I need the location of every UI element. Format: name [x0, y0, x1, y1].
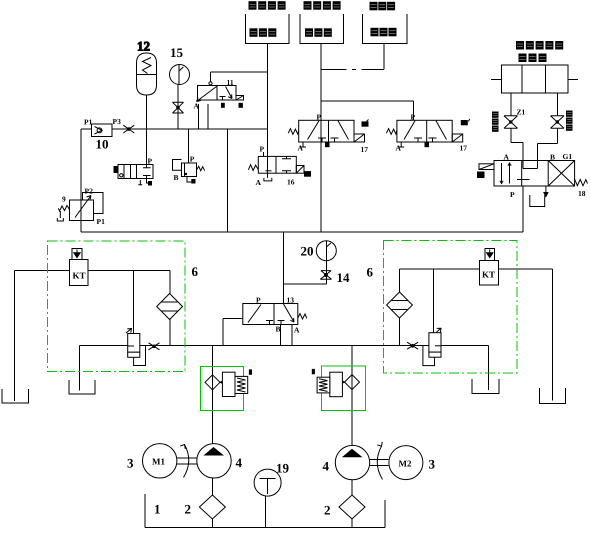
- relief valve 9: [57, 187, 105, 227]
- wire right filter column: [399, 269, 401, 346]
- solenoid directional valve 18: [478, 152, 588, 207]
- text label: brake (box 2): [305, 28, 332, 37]
- svg-text:B: B: [550, 153, 555, 162]
- text label: rope adjusting clutch title: [516, 41, 563, 50]
- svg-text:19: 19: [276, 461, 290, 476]
- wire right pump column: [351, 346, 353, 528]
- svg-text:2: 2: [185, 502, 192, 517]
- hydraulic lock KT left: [70, 249, 89, 286]
- counterbalance valve left: [126, 329, 146, 366]
- svg-text:P: P: [148, 157, 153, 166]
- counterbalance valve right: [423, 328, 441, 365]
- wire valve13 left port: [223, 319, 243, 346]
- wire relief_L feed: [133, 271, 135, 334]
- wire left drain to KT and tank1: [15, 271, 70, 402]
- svg-text:A: A: [194, 102, 200, 111]
- svg-text:KT: KT: [482, 270, 495, 280]
- text label: floating drum (brake box 1 title): [249, 1, 286, 10]
- filter big left: [157, 294, 183, 320]
- green filter unit box 5 right: [322, 366, 366, 411]
- suction filter with bypass right: [312, 369, 360, 397]
- wire through valve17L down to rail x=321: [320, 101, 322, 232]
- wire valve18 P drop: [522, 186, 524, 232]
- svg-text:11: 11: [227, 78, 234, 87]
- wire relief_R feed: [433, 269, 435, 333]
- check valve 10: [84, 117, 121, 152]
- svg-text:15: 15: [170, 45, 184, 60]
- text label: fixed drum (brake box 2 title): [304, 1, 341, 10]
- wire cylinder rod lines: [491, 79, 578, 81]
- tank T1 left drain: [2, 389, 29, 403]
- wire valve11 port drops: [199, 104, 209, 129]
- suction filter with bypass left: [205, 369, 252, 396]
- solenoid valve 17 right: [386, 113, 469, 153]
- svg-text:P: P: [190, 155, 195, 164]
- svg-text:B: B: [174, 173, 179, 182]
- green dash-dot enclosure 6 right: [384, 241, 518, 373]
- electric motor M1: [127, 444, 177, 478]
- svg-text:10: 10: [96, 137, 109, 152]
- svg-text:A: A: [504, 153, 510, 162]
- wire accumulator stem: [146, 95, 148, 129]
- plugged X left return: [149, 343, 160, 350]
- svg-text:M2: M2: [399, 459, 412, 469]
- svg-text:P: P: [411, 113, 416, 122]
- shaft coupling right: [370, 442, 389, 480]
- text label: close rope (right needle): [566, 111, 573, 131]
- svg-text:M1: M1: [152, 457, 165, 467]
- wire right tank3 drop: [488, 346, 490, 391]
- wire left tank2 drop: [79, 346, 81, 391]
- needle valve left (release rope): [504, 108, 526, 129]
- wire supply rail y=232: [81, 231, 523, 233]
- svg-text:17: 17: [361, 145, 369, 154]
- svg-text:12: 12: [137, 39, 150, 54]
- svg-text:18: 18: [578, 189, 586, 198]
- wire left frame vertical x=81: [80, 129, 82, 232]
- wire valve7 P feed: [146, 129, 148, 165]
- pilot valve 11: [194, 78, 244, 111]
- text label: electric motor (brake box 3 title): [370, 2, 396, 11]
- solenoid valve 17 left: [288, 113, 368, 155]
- svg-text:P: P: [256, 296, 261, 305]
- wire supply to valves 17: [321, 101, 414, 120]
- hydraulic pump 4 left: [197, 444, 243, 478]
- svg-text:B: B: [276, 325, 281, 334]
- brake box 3 (motor brake): [363, 14, 408, 44]
- text label: brake (box 3): [371, 28, 397, 37]
- wire KT_R line to right frame: [400, 268, 553, 270]
- pressure gauge 15: [170, 45, 190, 85]
- text label: open rope (left needle): [492, 112, 499, 132]
- text label: brake (box 1): [250, 28, 277, 37]
- svg-text:P: P: [260, 145, 265, 154]
- svg-text:4: 4: [236, 455, 243, 470]
- svg-text:G1: G1: [563, 152, 573, 161]
- needle valve right (close rope): [551, 116, 565, 128]
- text label: hydraulic cylinder title: [519, 54, 547, 63]
- plugged X on main line: [123, 125, 134, 133]
- wire cylinder left port to valve18 A: [511, 93, 523, 169]
- svg-text:A: A: [256, 178, 262, 187]
- wire cylinder right port to valve18 B: [538, 93, 558, 169]
- svg-text:A: A: [298, 144, 304, 153]
- svg-text:P3: P3: [113, 117, 122, 126]
- shaft coupling left: [177, 445, 197, 478]
- svg-text:6: 6: [367, 265, 374, 280]
- svg-text:A: A: [396, 144, 402, 153]
- wire dash-dot jumper to brake3 stem: [321, 44, 384, 70]
- svg-text:6: 6: [192, 264, 199, 279]
- wire gauge20 branch: [284, 261, 327, 284]
- wire long return line y=345.5: [80, 345, 489, 347]
- tank T3 right of return line: [472, 379, 499, 394]
- hydraulic pump 4 right: [323, 445, 370, 479]
- wire valve13 B drop: [280, 325, 282, 346]
- svg-text:P1: P1: [84, 118, 93, 127]
- svg-text:P: P: [510, 190, 515, 199]
- wire jumper to valve11 pilot: [211, 72, 268, 82]
- hydraulic lock KT right: [480, 249, 499, 286]
- shut-off valve 14: [320, 270, 350, 285]
- pressure gauge 20: [301, 241, 337, 261]
- suction strainer 2 left: [154, 495, 225, 519]
- tank T2 under left frame: [69, 380, 95, 394]
- svg-text:4: 4: [323, 459, 330, 474]
- level/temperature gauge 19: [254, 461, 289, 497]
- svg-text:A: A: [294, 326, 300, 335]
- svg-text:1: 1: [154, 502, 161, 517]
- filter big right: [387, 292, 413, 318]
- wire valve8 P feed: [188, 129, 190, 163]
- wire brake2 stem x=321: [320, 44, 322, 102]
- svg-text:Z1: Z1: [517, 108, 526, 117]
- svg-text:20: 20: [301, 244, 314, 259]
- green dash-dot enclosure 6 left: [48, 241, 186, 372]
- solenoid valve 16: [248, 145, 310, 188]
- svg-text:3: 3: [127, 456, 134, 471]
- wire valve18 center connect: [523, 168, 538, 170]
- electric motor M2: [389, 446, 436, 480]
- wire gauge19 drop: [265, 496, 267, 528]
- brake box 2 (fixed drum brake): [300, 14, 344, 44]
- brake box 1 (floating drum brake): [246, 14, 290, 44]
- green filter unit box 5 left: [200, 366, 243, 410]
- suction strainer 2 right: [324, 495, 365, 519]
- svg-text:13: 13: [287, 296, 295, 305]
- accumulator 12: [137, 39, 157, 96]
- svg-text:P1: P1: [97, 217, 106, 226]
- svg-text:3: 3: [429, 457, 436, 472]
- tank T4 right frame: [540, 388, 566, 404]
- plugged X right return: [407, 342, 418, 349]
- pilot valve 8: [173, 155, 205, 184]
- svg-text:9: 9: [62, 195, 66, 204]
- wire main pressure line y=129: [81, 128, 268, 130]
- wire valve13 top feed x=283.5: [283, 232, 285, 304]
- svg-text:14: 14: [337, 270, 351, 285]
- wire KT_L to filter corner: [88, 271, 170, 346]
- svg-text:KT: KT: [73, 271, 86, 281]
- solenoid valve 7: [114, 157, 153, 186]
- wire valve13 A drop: [291, 325, 293, 346]
- svg-text:P: P: [317, 113, 322, 122]
- clutch cylinder: [502, 65, 569, 93]
- shut-off valve under gauge 15: [173, 102, 184, 113]
- wire bottom tank rail: [145, 494, 385, 528]
- wire left pump column: [212, 346, 214, 528]
- wire right frame down to tank4: [552, 269, 554, 401]
- svg-text:P2: P2: [85, 187, 94, 196]
- svg-text:16: 16: [287, 178, 295, 187]
- wire gauge15 stem: [177, 85, 179, 130]
- svg-text:2: 2: [324, 503, 331, 518]
- wire drop from main line to rail x=227.5: [227, 129, 229, 232]
- wire brake1 stem and valve16 feed x=267.5: [267, 44, 269, 177]
- svg-text:17: 17: [460, 144, 468, 153]
- main directional valve 13: [243, 296, 307, 335]
